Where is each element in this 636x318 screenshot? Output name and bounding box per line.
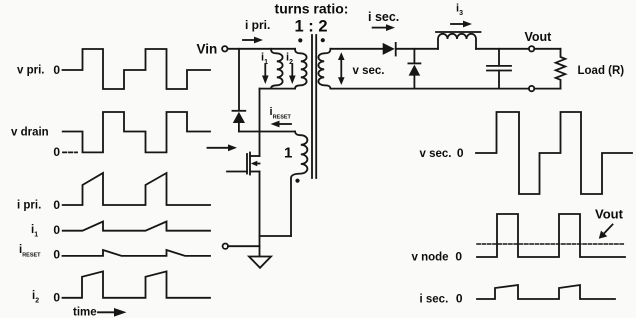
gate drive arrow — [208, 147, 229, 149]
winding i2 — [295, 49, 307, 89]
wire bottom rail secondary — [330, 88, 529, 90]
freewheel diode D3 — [413, 49, 415, 63]
waveform v node — [477, 214, 625, 257]
svg-text:0: 0 — [53, 248, 60, 262]
svg-text:0: 0 — [455, 250, 462, 264]
wire reset bottom to source — [260, 235, 292, 237]
svg-text:Vout: Vout — [525, 30, 553, 44]
waveform v pri. — [63, 49, 211, 89]
v sec measurement arrow — [340, 58, 342, 81]
Vout pointer arrow — [604, 225, 613, 235]
svg-text:0: 0 — [53, 198, 60, 212]
svg-text:Vin: Vin — [197, 42, 218, 57]
wire clamp diode to drain node — [239, 131, 295, 133]
load resistor (R) — [556, 49, 566, 89]
svg-text:Vout: Vout — [595, 207, 624, 222]
waveform i2 — [63, 271, 211, 297]
terminal Vin — [222, 46, 227, 51]
transformer core — [311, 35, 313, 178]
wire inductor to Vout — [476, 48, 529, 50]
i2 down arrow — [291, 64, 293, 78]
svg-text:v pri.: v pri. — [17, 65, 44, 77]
capacitor C — [498, 49, 500, 66]
svg-text:0: 0 — [456, 292, 463, 306]
ground — [249, 257, 271, 268]
wire source down — [259, 172, 261, 257]
i sec. arrow — [373, 27, 386, 29]
svg-text:0: 0 — [53, 63, 60, 77]
i1 down arrow — [264, 64, 266, 78]
wire windings bottom to drain — [259, 89, 261, 156]
polarity dot reset — [295, 179, 299, 183]
svg-text:Load (R): Load (R) — [578, 65, 625, 77]
svg-text:v sec.: v sec. — [420, 148, 452, 160]
svg-text:i sec.: i sec. — [420, 294, 449, 306]
time axis arrow — [98, 311, 115, 313]
wire diode to inductor — [397, 48, 439, 50]
i3 arrow — [451, 23, 463, 25]
waveform iRESET — [63, 250, 211, 256]
svg-text:i pri.: i pri. — [245, 18, 270, 32]
winding i1 — [271, 49, 283, 89]
svg-text:time: time — [73, 307, 97, 318]
svg-text:i pri.: i pri. — [17, 200, 41, 212]
polarity dot primary — [298, 38, 302, 42]
svg-text:v node: v node — [412, 252, 449, 264]
svg-text:0: 0 — [53, 223, 60, 237]
dashed Vout level line — [477, 243, 624, 245]
reset winding (1 turn) — [291, 132, 307, 237]
svg-text:v drain: v drain — [11, 127, 49, 139]
dashes after v drain zero — [63, 151, 77, 153]
wire top rail primary — [228, 48, 296, 50]
waveform i sec. — [477, 285, 615, 299]
wire Vin to clamp diode — [238, 49, 240, 111]
output diode D2 — [383, 43, 395, 55]
waveform v sec. — [476, 112, 632, 194]
i pri. arrow — [243, 39, 255, 41]
MOSFET Q1 — [250, 155, 260, 157]
wire gate lead — [227, 171, 247, 173]
polarity dot secondary — [321, 38, 325, 42]
svg-text:v sec.: v sec. — [353, 65, 385, 77]
svg-text:turns ratio:: turns ratio: — [275, 1, 349, 17]
terminal source return — [223, 244, 228, 249]
clamp diode D1 — [233, 110, 246, 112]
wire bottom terminal to load — [534, 88, 560, 90]
waveform i pri. — [63, 173, 210, 205]
wire windings bottom — [260, 88, 296, 90]
svg-text:i sec.: i sec. — [368, 10, 399, 24]
waveform i1 — [63, 222, 210, 231]
terminal bottom — [529, 86, 534, 91]
iRESET arrow — [279, 123, 291, 125]
terminal Vout — [529, 46, 534, 51]
wire secondary top rail — [330, 48, 382, 50]
svg-text:0: 0 — [53, 145, 60, 159]
svg-text:0: 0 — [53, 291, 60, 305]
waveform v drain — [63, 112, 210, 152]
secondary winding — [318, 49, 330, 89]
wire return terminal to source — [228, 245, 260, 247]
wire Vout to load — [534, 48, 560, 50]
inductor L (i3) — [438, 34, 476, 49]
svg-text:1 : 2: 1 : 2 — [294, 18, 327, 36]
svg-text:0: 0 — [457, 146, 464, 160]
svg-text:1: 1 — [284, 145, 292, 162]
